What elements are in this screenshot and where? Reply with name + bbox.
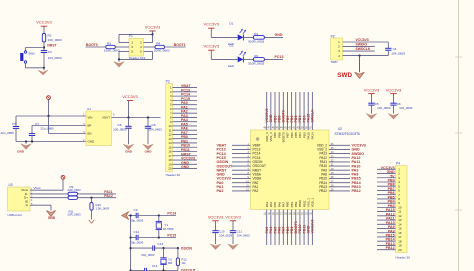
wire U2 pin 10 [232, 182, 251, 184]
wire power stem (D1) [210, 28, 212, 37]
wire C4 top stem [387, 42, 389, 48]
svg-text:STM32F103C8T6: STM32F103C8T6 [335, 132, 361, 136]
MCU U2 body [251, 130, 330, 210]
resistor R10 [90, 202, 93, 210]
connector P3 body [166, 84, 173, 172]
wire VCC to D1 [211, 36, 237, 38]
wire NRST to SW1 [26, 47, 45, 49]
wire to ground (boot) [118, 59, 120, 61]
svg-text:510R_0603: 510R_0603 [248, 61, 264, 65]
power port VCC3V3 (D1) [204, 22, 220, 29]
svg-text:VCC3V3: VCC3V3 [204, 22, 220, 27]
wire pin 11 (P4) [377, 211, 396, 213]
ground (C5) [366, 114, 376, 120]
ground (C8) [143, 144, 153, 150]
junction bus/C13 [130, 247, 132, 249]
wire pin 14 (P4) [377, 223, 396, 225]
wire R12 to OSCOUT [177, 266, 179, 271]
wire loop right down to pin2 [152, 34, 154, 42]
wire pin 7 (P3) [172, 112, 197, 114]
svg-text:C9: C9 [134, 208, 138, 212]
wire SW1 to ground rail [26, 67, 45, 69]
wire U2 pin 30 [329, 169, 350, 171]
wire pin 3 (P3) [172, 95, 197, 97]
wire pin 12 (P3) [172, 133, 197, 135]
wire BP [32, 125, 86, 127]
svg-text:BOOT1: BOOT1 [174, 43, 186, 47]
wire pin 1 (P4) [377, 168, 396, 170]
junction boot gnd node [118, 58, 120, 60]
svg-text:SWCLK: SWCLK [311, 109, 315, 123]
wire BOOT1 [165, 46, 186, 48]
svg-text:GND: GND [48, 216, 56, 220]
wire 5V stem [48, 100, 50, 117]
capacitor C13 [153, 245, 155, 250]
svg-text:PC15: PC15 [167, 234, 176, 238]
wire VCC3V3 (SWD) [343, 41, 389, 43]
svg-text:R3: R3 [107, 41, 111, 45]
wire C6 to ground [128, 128, 130, 144]
wire pin 15 (P3) [172, 146, 197, 148]
svg-text:R4: R4 [156, 41, 160, 45]
svg-text:106_0805: 106_0805 [113, 127, 127, 131]
wire pin 10 (P3) [172, 125, 197, 127]
wire G to ground [30, 204, 51, 206]
wire pin5 stub [119, 50, 129, 52]
svg-text:20p_0603: 20p_0603 [130, 218, 143, 222]
svg-text:BOOT0: BOOT0 [86, 43, 98, 47]
power port VCC3V3 (C6) [386, 87, 402, 93]
wire pin 9 (P4) [377, 202, 396, 204]
capacitor C12 [136, 235, 138, 240]
wire D+ to R11 [30, 197, 68, 199]
svg-text:EN: EN [88, 132, 92, 136]
wire pin 17 (P3) [172, 155, 197, 157]
wire U2 pin 41 [295, 92, 297, 130]
power port VCC3V3 (reset) [36, 20, 52, 27]
svg-text:U2: U2 [338, 127, 342, 131]
connector P2 body [331, 38, 343, 60]
wire EN [49, 133, 87, 135]
svg-text:SW1: SW1 [28, 51, 35, 55]
crystal Y1 [156, 216, 162, 238]
resistor R12 [176, 258, 179, 266]
wire bus to C13 [131, 247, 153, 249]
wire D2 to R2 (LED) [243, 58, 253, 60]
svg-text:Header 20: Header 20 [396, 255, 411, 259]
wire bottom loop (boot) [119, 58, 153, 60]
wire U2 pin 46 [274, 92, 276, 130]
svg-text:PA14: PA14 [311, 132, 315, 139]
power port VCC3V3 (C5) [364, 87, 380, 93]
svg-text:D1: D1 [229, 22, 233, 26]
wire U2 pin 39 [303, 92, 305, 130]
resistor R11 [68, 196, 78, 199]
svg-text:8M: 8M [168, 261, 173, 265]
wire U2 pin 34 [329, 153, 350, 155]
wire pin 2 (P3) [172, 91, 197, 93]
wire U2 pin 6 [232, 165, 251, 167]
svg-text:PC14: PC14 [167, 212, 176, 216]
wire pin3 to R3 [115, 46, 129, 48]
power port VCC3V3 (boot) [145, 24, 161, 31]
wire pin 17 (P4) [377, 236, 396, 238]
wire pin 19 (P4) [377, 244, 396, 246]
wire pin 10 (P4) [377, 206, 396, 208]
ground (C11) [228, 244, 238, 250]
capacitor C14 [145, 268, 147, 271]
svg-text:C8: C8 [152, 123, 156, 127]
junction boot VCC node [151, 33, 153, 35]
wire D- to R9 [30, 193, 68, 195]
wire R9 to PA11 [78, 193, 117, 195]
ground (C6) [388, 114, 398, 120]
junction Y1 top [158, 214, 160, 216]
wire ground stem (USB) [50, 205, 52, 210]
junction VOUT/C8 [147, 116, 149, 118]
svg-text:32.768K: 32.768K [163, 227, 174, 231]
junction C7 gnd [31, 140, 33, 142]
wire U2 pin 24 [311, 210, 313, 246]
wire VCC to C6 [393, 94, 395, 104]
wire U2 pin 43 [286, 92, 288, 130]
wire pin 14 (P3) [172, 142, 197, 144]
junction R12/OSCIN [177, 247, 179, 249]
svg-text:22R_0603: 22R_0603 [68, 213, 82, 217]
resistor R2 (LED) [253, 58, 264, 62]
wire pin 18 (P3) [172, 159, 197, 161]
svg-text:R2: R2 [48, 33, 52, 37]
svg-text:VCC3V3: VCC3V3 [225, 214, 241, 219]
svg-text:LED: LED [228, 64, 235, 68]
svg-text:VDD_1: VDD_1 [311, 197, 315, 207]
svg-text:VCC3V3: VCC3V3 [145, 24, 161, 29]
svg-text:USB-micro: USB-micro [8, 213, 23, 217]
svg-text:C7: C7 [35, 122, 39, 126]
wire U2 pin 1 [232, 144, 251, 146]
junction bus/C14 [130, 269, 132, 271]
power port VCC3V3 (regulator out) [122, 94, 138, 101]
LED D2 [238, 51, 246, 63]
svg-text:VCC3V3: VCC3V3 [208, 214, 224, 219]
svg-text:104_0603: 104_0603 [149, 127, 163, 131]
ground (SWD) [355, 72, 365, 78]
junction bus/C12 [130, 236, 132, 238]
wire pin 16 (P3) [172, 151, 197, 153]
svg-text:P1: P1 [129, 34, 133, 38]
junction 5V/VIN [47, 115, 49, 117]
wire C5 to ground [371, 105, 373, 114]
wire C7 bottom stem [31, 136, 33, 142]
wire U2 pin 26 [329, 186, 350, 188]
wire pin2 stub [144, 42, 153, 44]
svg-text:P4: P4 [396, 161, 400, 165]
junction ground node (reset) [43, 67, 45, 69]
svg-text:22R_0603: 22R_0603 [68, 188, 82, 192]
junction Y2 bottom [162, 269, 164, 271]
wire U2 pin 2 [232, 148, 251, 150]
wire pin 4 (P3) [172, 99, 197, 101]
wire C9 to PC14 [138, 215, 176, 217]
wire U2 pin 12 [232, 190, 251, 192]
wire U2 pin 35 [329, 148, 350, 150]
wire D1 to R1 [243, 36, 253, 38]
svg-text:C3: C3 [48, 50, 52, 54]
wire GND (SWD) [343, 55, 389, 57]
wire OSCIN to R12 [177, 248, 179, 258]
capacitor C3 [41, 51, 47, 53]
svg-text:104_0603: 104_0603 [48, 56, 62, 60]
svg-text:22u_0805: 22u_0805 [1, 131, 15, 135]
svg-text:104_0603: 104_0603 [391, 51, 405, 55]
wire U2 pin 31 [329, 165, 350, 167]
junction bus/C9 [130, 214, 132, 216]
svg-text:GND: GND [88, 140, 94, 144]
wire U2 pin 29 [329, 173, 350, 175]
wire C5 bottom stem [15, 128, 17, 141]
junction D+/R10 [90, 197, 92, 199]
wire pin 5 (P3) [172, 104, 197, 106]
svg-text:U3: U3 [9, 183, 13, 187]
wire VOUT rail [112, 117, 161, 119]
wire to ground (SWD) [359, 56, 361, 73]
wire U2 pin 16 [278, 210, 280, 246]
wire U2 pin 7 [232, 169, 251, 171]
svg-text:VCC3V3: VCC3V3 [36, 20, 52, 25]
svg-text:100K_0603: 100K_0603 [154, 49, 170, 53]
svg-text:U1: U1 [87, 107, 91, 111]
wire loop left to gnd rail [118, 51, 120, 59]
wire VIN to EN [48, 116, 50, 134]
svg-text:SWD: SWD [331, 60, 339, 64]
capacitor C5 [13, 127, 19, 129]
wire C7 top stem [31, 126, 33, 134]
wire U2 pin 17 [282, 210, 284, 246]
wire VCC to D2 [211, 58, 237, 60]
capacitor C11 [230, 231, 236, 233]
wire bus to C12 [131, 237, 137, 239]
svg-text:PC13: PC13 [275, 55, 284, 59]
wire pin 15 (P4) [377, 228, 396, 230]
wire pin 2 (P4) [377, 173, 396, 175]
svg-text:PB12: PB12 [319, 189, 327, 193]
wire U2 pin 8 [232, 173, 251, 175]
capacitor C10 [212, 231, 218, 233]
svg-text:OSCIN: OSCIN [181, 246, 193, 250]
svg-text:20: 20 [398, 248, 402, 252]
wire C5 top stem [15, 116, 17, 127]
wire U2 pin 23 [307, 210, 309, 246]
ground (C10) [210, 244, 220, 250]
wire U2 pin 15 [274, 210, 276, 246]
ground (regulator) [21, 144, 31, 150]
wire SWDIO [343, 46, 375, 48]
wire pin 20 (P4) [377, 249, 396, 251]
wire U2 pin 45 [278, 92, 280, 130]
wire U2 pin 21 [299, 210, 301, 246]
svg-text:PA12: PA12 [104, 194, 113, 198]
regulator U1 body [86, 111, 112, 146]
junction Y2 top [162, 247, 164, 249]
wire U2 pin 25 [329, 190, 350, 192]
svg-text:P3: P3 [166, 80, 170, 84]
svg-text:PA2: PA2 [253, 189, 259, 193]
svg-text:BP: BP [88, 124, 92, 128]
wire GND rail (regulator) [16, 141, 86, 143]
wire pin 9 (P3) [172, 121, 197, 123]
wire pin 1 (P3) [172, 87, 197, 89]
svg-text:104_0603: 104_0603 [399, 106, 413, 110]
resistor R9 [68, 192, 78, 195]
resistor R2 [42, 34, 45, 43]
wire U2 pin 3 [232, 153, 251, 155]
resistor R1 [253, 36, 264, 40]
wire pin 19 (P3) [172, 163, 197, 165]
wire pin 6 (P4) [377, 189, 396, 191]
resistor R4 [155, 45, 165, 48]
svg-text:1M: 1M [181, 261, 186, 265]
wire pin 13 (P3) [172, 138, 197, 140]
wire U2 pin 32 [329, 161, 350, 163]
power port 5V (regulator) [47, 96, 51, 100]
wire pin 12 (P4) [377, 215, 396, 217]
wire pin 20 (P3) [172, 168, 197, 170]
wire SWDCLK [343, 50, 375, 52]
wire VIN rail [16, 115, 86, 117]
wire VCC to C5 [371, 94, 373, 104]
capacitor C6 [125, 126, 131, 128]
power port 5V (USB) [61, 175, 65, 179]
wire VCC to C10 [215, 221, 217, 231]
wire C4 bottom stem [387, 50, 389, 55]
svg-text:VCC3V3: VCC3V3 [204, 44, 220, 49]
wire pin 8 (P3) [172, 116, 197, 118]
switch SW1 [20, 48, 26, 68]
wire C8 top stem [147, 118, 149, 127]
junction Y1 bottom [158, 236, 160, 238]
pin 1 marker (U2) [256, 137, 259, 140]
wire R1 to net GND [264, 36, 283, 38]
capacitor C8 [145, 126, 151, 128]
power port VCC3V3 (D2) [204, 44, 220, 51]
LED D1 [238, 29, 246, 41]
svg-text:SWD: SWD [337, 72, 352, 79]
connector P4 body [396, 166, 408, 253]
svg-text:10K_0603: 10K_0603 [48, 38, 62, 42]
svg-text:1.5K_0603: 1.5K_0603 [96, 207, 110, 211]
wire U2 pin 47 [270, 92, 272, 130]
wire pin 8 (P4) [377, 198, 396, 200]
svg-text:GND: GND [181, 165, 189, 169]
svg-text:510R_0603: 510R_0603 [248, 39, 264, 43]
svg-text:PB12: PB12 [352, 189, 361, 193]
wire power stem (D2) [210, 50, 212, 59]
ground (crystal bus, arrow left) [122, 212, 129, 219]
capacitor C4 [385, 48, 391, 50]
svg-text:VCC3V3: VCC3V3 [122, 94, 138, 99]
wire C11 to ground [232, 233, 234, 244]
wire U2 pin 18 [286, 210, 288, 246]
wire U2 pin 42 [291, 92, 293, 130]
wire R2 to node NRST [43, 42, 45, 51]
ground (boot) [114, 62, 124, 68]
svg-text:GND: GND [145, 150, 153, 154]
svg-text:P2: P2 [331, 34, 335, 38]
svg-text:GND: GND [275, 33, 283, 37]
wire U2 pin 13 [266, 210, 268, 246]
wire U2 pin 33 [329, 157, 350, 159]
capacitor C6 [390, 103, 396, 105]
svg-text:C6: C6 [118, 123, 122, 127]
junction VOUT/C6 [127, 116, 129, 118]
wire crystal gnd bus [130, 216, 132, 271]
wire pin4 to R4 [144, 46, 156, 48]
capacitor C5 [368, 103, 374, 105]
power port VCC3V3 (C10) [208, 214, 224, 220]
svg-text:C12: C12 [134, 230, 140, 234]
wire U2 pin 38 [307, 92, 309, 130]
wire top loop (boot) [119, 33, 153, 35]
wire pin 6 (P3) [172, 108, 197, 110]
svg-text:22u_0805: 22u_0805 [41, 127, 55, 131]
wire U2 pin 20 [295, 210, 297, 246]
capacitor C9 [136, 213, 138, 218]
power port (R10 pull) [89, 220, 94, 224]
svg-text:20p_0603: 20p_0603 [141, 253, 154, 257]
wire U2 pin 28 [329, 178, 350, 180]
wire U2 pin 4 [232, 157, 251, 159]
svg-text:PA2: PA2 [217, 189, 224, 193]
wire loop right down [152, 51, 154, 59]
svg-text:100K_0603: 100K_0603 [104, 49, 120, 53]
connector P1 body [129, 38, 144, 56]
crystal Y2 [160, 248, 166, 270]
power port VCC3V3 (C11) [225, 214, 241, 220]
svg-text:VCC3V3: VCC3V3 [386, 87, 402, 92]
wire Vbus [30, 189, 63, 191]
svg-text:Vbus: Vbus [34, 186, 42, 190]
svg-text:R2: R2 [254, 54, 258, 58]
wire D+ to R10 [91, 198, 93, 203]
svg-text:C13: C13 [158, 242, 164, 246]
svg-text:C5: C5 [12, 122, 16, 126]
wire pin 18 (P4) [377, 240, 396, 242]
wire VCC to C11 [232, 221, 234, 231]
svg-text:Header 20: Header 20 [166, 173, 181, 177]
wire R10 down [91, 210, 93, 219]
svg-text:104_0603: 104_0603 [237, 233, 250, 237]
junction NRST node [43, 46, 45, 48]
svg-text:SWDCLK: SWDCLK [356, 47, 371, 51]
svg-text:104_0603: 104_0603 [377, 106, 391, 110]
ground (reset) [38, 70, 48, 75]
wire pin 3 (P4) [377, 177, 396, 179]
svg-text:C14: C14 [152, 264, 158, 268]
wire C12 to PC15 [138, 237, 176, 239]
svg-text:20: 20 [168, 167, 172, 171]
wire C13 to OSCIN [155, 247, 178, 249]
wire U2 pin 36 [329, 144, 350, 146]
sheet border right edge [455, 0, 462, 271]
svg-text:VIN: VIN [88, 116, 93, 120]
wire pin 11 (P3) [172, 129, 197, 131]
svg-text:VOUT: VOUT [102, 116, 110, 120]
wire C6 top stem [128, 118, 130, 127]
wire U2 pin 22 [303, 210, 305, 246]
wire U2 pin 19 [291, 210, 293, 246]
resistor R3 [106, 45, 116, 48]
svg-text:VCC3V3: VCC3V3 [364, 87, 380, 92]
